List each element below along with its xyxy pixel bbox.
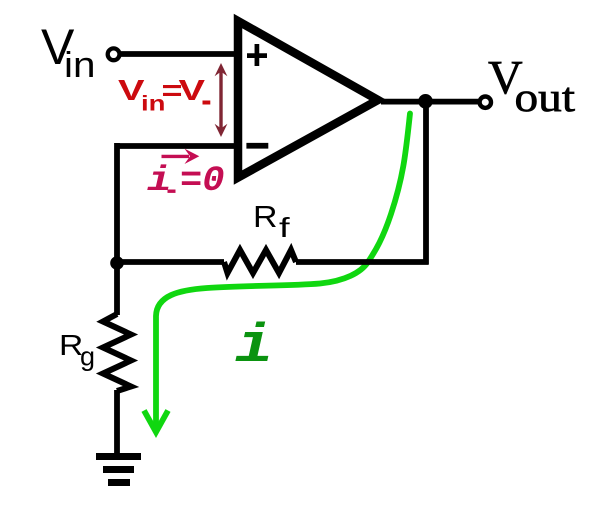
svg-text:=0: =0 — [180, 161, 225, 201]
svg-text:g: g — [80, 342, 95, 372]
svg-text:in: in — [64, 44, 96, 85]
svg-text:R: R — [253, 199, 278, 234]
svg-text:V: V — [179, 75, 206, 107]
svg-text:f: f — [279, 212, 290, 243]
svg-text:out: out — [515, 74, 576, 120]
svg-text:i: i — [147, 161, 172, 201]
svg-text:i: i — [235, 315, 273, 378]
